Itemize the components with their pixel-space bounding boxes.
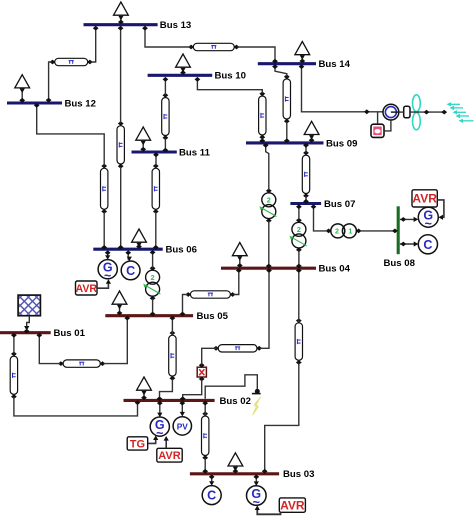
line Bus6-Bus12 bbox=[101, 164, 108, 214]
svg-text:Bus 09: Bus 09 bbox=[326, 138, 357, 149]
svg-text:Bus 04: Bus 04 bbox=[319, 264, 351, 275]
wire Bus07 to transformer 4-7 bbox=[296, 204, 302, 220]
wind speed input box bbox=[371, 124, 384, 137]
wire line 2-4 to Bus04 bbox=[260, 268, 272, 348]
transformer Bus09-Bus04 bbox=[259, 188, 276, 223]
wire Bus14 to wind generator bbox=[299, 64, 383, 114]
wire Bus07 to transformer 7-8 bbox=[311, 204, 327, 231]
generator G at Bus 08 bbox=[418, 207, 438, 231]
load at Bus 05 bbox=[112, 291, 127, 315]
bus Bus 02 bbox=[124, 396, 251, 407]
wire transformer 7-8 to Bus08 bbox=[361, 229, 398, 234]
wire Bus13 to line 13-14 bbox=[142, 26, 190, 47]
wire line 2-3 to Bus03 bbox=[202, 458, 208, 473]
wire line 6-11 to Bus06 bbox=[153, 212, 159, 250]
line Bus7-Bus9 bbox=[302, 151, 309, 199]
generator G at Bus 03 bbox=[246, 486, 266, 510]
svg-text:PV: PV bbox=[177, 421, 189, 431]
wire line 9-14 to Bus09 bbox=[284, 122, 290, 143]
bus Bus 01 bbox=[0, 328, 86, 339]
svg-text:Bus 03: Bus 03 bbox=[283, 469, 314, 480]
wire line 10-11 to Bus11 bbox=[163, 138, 169, 152]
svg-text:Bus 02: Bus 02 bbox=[220, 396, 251, 407]
wire AVR to G at Bus 08 bbox=[438, 200, 444, 220]
load at Bus 14 bbox=[295, 42, 310, 64]
wire AVR to G at Bus 02 bbox=[164, 436, 169, 448]
compensator C at Bus 06 bbox=[121, 261, 140, 280]
PV block at Bus 02 bbox=[173, 417, 191, 435]
wire Bus13 to line 6-13 bbox=[118, 26, 124, 123]
wire Bus08 to C bbox=[400, 241, 418, 246]
wire Bus03 to C bbox=[209, 475, 215, 486]
wire AVR to G at Bus 06 bbox=[97, 279, 111, 288]
line Bus1-Bus5 bbox=[58, 360, 105, 367]
wire line 5-2 to Bus02 bbox=[157, 379, 173, 401]
transformer Bus06-Bus05 bbox=[143, 266, 160, 301]
wire Bus02 to line 2-3 bbox=[202, 401, 208, 416]
wire Bus06 to C bbox=[125, 250, 132, 261]
wire Bus04 to line 4-3 bbox=[296, 268, 302, 322]
line Bus9-Bus10 bbox=[259, 91, 266, 139]
bus Bus 03 bbox=[190, 469, 315, 480]
line Bus6-Bus11 bbox=[152, 164, 159, 214]
line Bus13-Bus14 bbox=[188, 43, 239, 50]
svg-text:Bus 06: Bus 06 bbox=[166, 245, 197, 256]
svg-text:Bus 05: Bus 05 bbox=[197, 311, 229, 322]
line Bus4-Bus3 bbox=[295, 318, 302, 365]
wire transformer 4-9 to Bus04 bbox=[266, 221, 272, 268]
transformer Bus07-Bus04 bbox=[290, 218, 307, 252]
wire line 1-2 to Bus02 bbox=[14, 397, 140, 416]
breaker lightning bolt bbox=[253, 397, 261, 415]
bus Bus 06 bbox=[93, 245, 197, 256]
wire Bus11 to line 6-11 bbox=[153, 152, 159, 165]
load at Bus 04 bbox=[232, 243, 247, 268]
load at Bus 06 bbox=[132, 229, 147, 249]
AVR box at Bus 06 bbox=[75, 281, 97, 295]
wire shaft to wind node bbox=[410, 110, 447, 115]
svg-text:2: 2 bbox=[267, 196, 271, 205]
wire Bus03 to G bbox=[253, 475, 259, 487]
wire slack to Bus 01 bbox=[24, 316, 30, 334]
svg-text:Bus 01: Bus 01 bbox=[54, 328, 86, 339]
wind arrows bbox=[447, 102, 474, 123]
wire line 13-14 to Bus14 bbox=[237, 47, 278, 64]
wire Bus09 to line 7-9 bbox=[303, 143, 309, 153]
transformer Bus07-Bus08 bbox=[326, 224, 362, 238]
svg-text:Bus 07: Bus 07 bbox=[324, 199, 355, 210]
svg-text:~: ~ bbox=[425, 217, 432, 231]
bus Bus 14 bbox=[258, 59, 351, 70]
AVR box at Bus 02 bbox=[157, 448, 182, 462]
svg-text:1: 1 bbox=[348, 227, 352, 236]
wire AVR to G at Bus 03 bbox=[255, 505, 281, 514]
wire Bus14 to line 9-14 bbox=[272, 64, 287, 76]
TG box at Bus 02 bbox=[127, 437, 148, 451]
wire line 12-13 to Bus12 bbox=[46, 62, 52, 103]
AVR box at Bus 03 bbox=[279, 498, 305, 513]
svg-text:Bus 14: Bus 14 bbox=[319, 59, 351, 70]
wire transformer 6-5 to Bus05 bbox=[150, 299, 156, 317]
load at Bus 03 bbox=[228, 453, 243, 474]
line Bus5-Bus2 bbox=[169, 331, 176, 381]
wire Bus06 to G bbox=[105, 250, 111, 259]
line Bus6-Bus13 bbox=[117, 121, 124, 169]
wire Bus02 to PV bbox=[179, 401, 185, 417]
wire fault X to Bus 02 bbox=[180, 380, 202, 402]
svg-text:AVR: AVR bbox=[158, 450, 180, 462]
load at Bus 11 bbox=[136, 127, 151, 152]
wire line 7-9 to Bus07 bbox=[303, 196, 309, 204]
bus Bus 07 bbox=[290, 199, 355, 210]
load at Bus 10 bbox=[176, 54, 191, 75]
svg-text:AVR: AVR bbox=[412, 192, 437, 206]
svg-text:TG: TG bbox=[130, 438, 145, 450]
wire Bus06 to transformer 6-5 bbox=[150, 250, 156, 268]
wire Bus09 to transformer 4-9 bbox=[263, 143, 269, 190]
line Bus1-Bus2 bbox=[10, 352, 17, 400]
wire line 6-13 to Bus06 bbox=[118, 167, 124, 250]
line Bus2-Bus3 bbox=[202, 411, 209, 460]
wire Bus01 to line 1-2 bbox=[11, 333, 17, 354]
wire Bus12 to line 6-12 bbox=[34, 103, 104, 166]
load at Bus 12 bbox=[15, 75, 30, 103]
fault X box near Bus 02 bbox=[197, 363, 206, 382]
svg-text:2: 2 bbox=[335, 227, 339, 236]
load at Bus 09 bbox=[304, 121, 319, 142]
svg-text:Bus 11: Bus 11 bbox=[179, 147, 211, 158]
induction generator (wind) bbox=[383, 104, 399, 120]
svg-text:Bus 13: Bus 13 bbox=[160, 20, 191, 31]
wire Bus05 to line 5-4 bbox=[180, 295, 188, 317]
bus Bus 09 bbox=[246, 138, 357, 149]
line Bus12-Bus13 bbox=[50, 58, 93, 65]
line Bus2-Bus4 (faulted) bbox=[213, 345, 262, 352]
svg-text:Bus 12: Bus 12 bbox=[65, 98, 96, 109]
wire TG to G at Bus 02 bbox=[148, 435, 158, 443]
wire Bus02 to G bbox=[157, 401, 163, 418]
svg-text:C: C bbox=[126, 264, 135, 278]
generator G at Bus 06 bbox=[98, 260, 117, 283]
bus Bus 11 bbox=[132, 147, 211, 158]
wire line 4-3 to Bus03 bbox=[262, 363, 299, 474]
bus Bus 05 bbox=[105, 311, 228, 322]
wire Bus05 to line 5-2 bbox=[170, 316, 176, 335]
compensator C at Bus 08 bbox=[418, 235, 437, 254]
svg-text:Bus 08: Bus 08 bbox=[384, 258, 416, 269]
bus Bus 12 bbox=[7, 98, 96, 109]
svg-text:2: 2 bbox=[297, 225, 301, 234]
bus Bus 04 bbox=[221, 264, 351, 275]
load at Bus 13 bbox=[114, 2, 129, 24]
wire line 6-12 to Bus06 bbox=[101, 212, 107, 250]
bus Bus 13 bbox=[84, 20, 192, 31]
breaker stub at Bus 02 bbox=[205, 375, 260, 399]
svg-text:C: C bbox=[207, 489, 216, 503]
svg-text:Bus 10: Bus 10 bbox=[215, 71, 246, 82]
bus Bus 08 bbox=[384, 206, 416, 269]
wire wind box to shaft bbox=[377, 112, 379, 124]
generator G at Bus 02 bbox=[150, 417, 169, 440]
wire Bus01 to line 1-5 bbox=[36, 333, 60, 364]
bus Bus 10 bbox=[148, 71, 246, 82]
wind turbine blades bbox=[413, 95, 421, 130]
gearbox bbox=[399, 106, 410, 118]
wire line 9-10 to Bus09 bbox=[259, 138, 265, 143]
wire line 5-4 to Bus04 bbox=[234, 268, 242, 294]
wire Bus10 to line 9-10 bbox=[195, 77, 263, 93]
wire transformer 4-7 to Bus04 bbox=[296, 251, 302, 269]
wire Bus10 to line 10-11 bbox=[163, 77, 169, 95]
wire line 1-5 to Bus05 bbox=[103, 316, 130, 364]
wire motor to wind box bbox=[384, 120, 391, 131]
svg-text:C: C bbox=[423, 238, 432, 252]
svg-text:2: 2 bbox=[151, 273, 155, 282]
line Bus10-Bus11 bbox=[162, 93, 169, 140]
svg-text:AVR: AVR bbox=[280, 498, 305, 512]
slack source (crosshatch) at Bus 01 bbox=[0, 295, 63, 316]
wire Bus13 to line 12-13 bbox=[91, 26, 99, 62]
line Bus5-Bus4 bbox=[185, 291, 235, 298]
AVR box at Bus 08 bbox=[412, 190, 437, 207]
wire line 2-4 to fault X bbox=[202, 348, 217, 364]
wire Bus08 to G bbox=[400, 217, 418, 222]
svg-text:AVR: AVR bbox=[75, 283, 97, 295]
load at Bus 02 bbox=[137, 377, 152, 400]
compensator C at Bus 03 bbox=[202, 486, 221, 505]
line Bus9-Bus14 bbox=[283, 74, 290, 123]
